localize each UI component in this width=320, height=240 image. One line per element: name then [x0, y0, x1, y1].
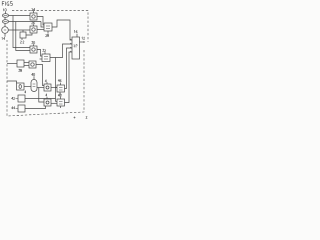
label 16 stalk — [76, 34, 78, 37]
control box SV tall — [72, 37, 80, 59]
label 48 — [58, 94, 61, 97]
wire machine M to gate B2 — [8, 29, 30, 31]
label stalk — [5, 12, 7, 14]
shaft wire down — [4, 33, 6, 37]
modulator M3 box — [57, 85, 65, 92]
wire capsule out to box BM — [37, 87, 44, 89]
wire BM out to M3 — [51, 87, 57, 89]
figure title FIG 5 — [2, 2, 12, 6]
label 14 — [2, 37, 5, 40]
label stalk — [46, 82, 48, 84]
capsule K vertical stadium — [31, 80, 37, 92]
label 40 — [32, 73, 35, 76]
wire G2 line down into M1 — [41, 22, 44, 28]
wire G5 output down to box BM — [36, 65, 44, 86]
wire border input to box 38 — [7, 63, 17, 65]
connector E1 to E2 — [4, 17, 6, 19]
gate B2 box with circle — [30, 26, 37, 33]
label 28 — [46, 34, 49, 37]
label 4 — [25, 91, 26, 94]
label 16 — [74, 30, 77, 33]
wire tee down into BX — [22, 30, 24, 32]
stub below M3 — [59, 92, 61, 94]
shaft wire up — [4, 23, 6, 26]
gate G3 box with circle — [30, 46, 37, 53]
wire BX output up to B2 — [26, 33, 32, 35]
wire tap from M2 output down to M3 and M4 — [56, 58, 58, 102]
gate G5 box with circle — [29, 61, 36, 68]
label 48 stalk — [60, 97, 62, 99]
wire bus2 down — [16, 22, 30, 51]
box BL1 with oval — [17, 83, 25, 90]
box BL2 — [18, 95, 25, 102]
label 44 — [12, 107, 15, 110]
label 46 stalk — [60, 83, 62, 85]
machine M circle — [2, 27, 9, 34]
label 26 — [32, 21, 35, 24]
input tick 4 — [70, 51, 72, 52]
box BM with circle — [44, 84, 51, 91]
wire B1 output to modulator M1 — [37, 17, 44, 26]
wire M3 output up to control box — [65, 48, 73, 89]
label 24 — [32, 8, 35, 11]
label 10 — [3, 9, 6, 12]
control box inner glyphs — [74, 45, 78, 48]
label 30 stalk — [33, 44, 35, 46]
wire BL1 out to capsule — [24, 86, 31, 88]
generator G1 ellipse — [2, 14, 8, 18]
wire BM2 out to M4 — [51, 102, 57, 104]
label 44a — [45, 80, 46, 83]
input tick 3 — [70, 47, 72, 48]
modulator M2 box — [42, 54, 50, 62]
stub below M4 — [60, 106, 62, 108]
label 42 — [12, 97, 15, 100]
modulator M4 box — [57, 99, 65, 106]
generator G2 ellipse — [2, 20, 8, 24]
gate B1 box with circle — [30, 13, 37, 20]
wire M2 output up to control box — [50, 44, 72, 58]
input tick 1 — [70, 39, 72, 40]
label 32 stalk — [44, 52, 46, 54]
label 22 — [20, 41, 24, 43]
label tick BL2 — [16, 97, 19, 99]
label 38 — [19, 69, 22, 72]
branch into M3 — [56, 86, 58, 88]
capsule label stalk — [33, 76, 35, 79]
modulator M1 box — [44, 23, 52, 31]
stub below M1 — [47, 31, 49, 34]
box BX tap — [20, 32, 26, 38]
label 26 stalk — [33, 24, 35, 26]
label 30 — [32, 41, 35, 44]
BM2 label stalk — [46, 97, 48, 99]
bottom corner marks — [74, 117, 76, 119]
box BM2 with circle — [44, 99, 51, 106]
label 24 stalk — [33, 11, 35, 13]
wire BL3 out to BM2 bottom — [25, 106, 46, 109]
label 32 — [43, 49, 46, 52]
label 4b — [46, 94, 47, 97]
label tick BL3 — [16, 107, 19, 109]
stub M2 second input — [40, 58, 43, 60]
wire G2 east — [9, 21, 41, 23]
wire G1 to gate B1 — [9, 15, 30, 17]
input box 38 square — [17, 60, 24, 67]
wire bus1 down — [13, 16, 30, 48]
wire border input to box BL1 — [7, 81, 17, 83]
label 12 — [82, 37, 85, 40]
wire box38 to G5 upper — [24, 62, 29, 64]
label 46 — [58, 79, 61, 82]
wire M4 output up to control box — [65, 52, 73, 103]
box BL3 — [18, 105, 25, 112]
output arrow of control box — [80, 41, 85, 43]
wire G3 output to modulator M2 — [37, 50, 42, 57]
wire B2 output to M1 — [37, 29, 44, 31]
wire box38 to G5 lower — [24, 65, 29, 67]
wire capsule lower branch down — [39, 88, 44, 103]
BX label stalk — [21, 38, 23, 40]
wire M1 output up and over to control box — [52, 20, 72, 40]
wire BL2 out across — [25, 98, 56, 100]
dashed system boundary box 2 — [7, 11, 88, 117]
input tick 2 — [70, 43, 72, 44]
